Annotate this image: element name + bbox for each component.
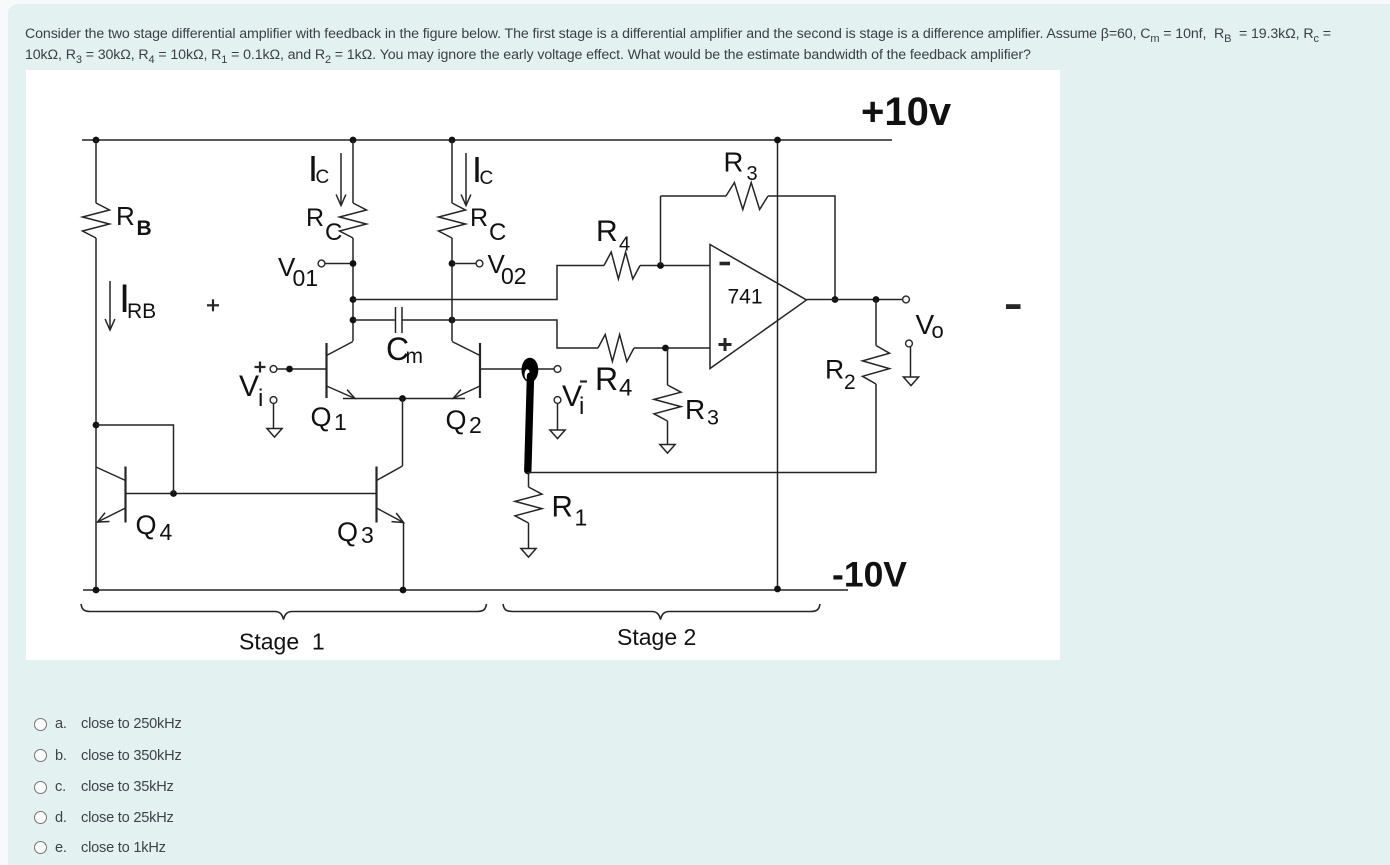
svg-text:R: R [116, 201, 135, 231]
wire RC1 branch top [352, 140, 354, 203]
svg-text:C: C [480, 168, 494, 189]
wire common emitters [355, 398, 453, 400]
wire R1 bottom [528, 523, 530, 548]
svg-text:1: 1 [575, 505, 588, 531]
wire op-amp supply (vertical) [777, 140, 779, 589]
svg-text:2: 2 [844, 371, 856, 394]
wire Q2 base to Vi- [480, 368, 554, 370]
svg-text:4: 4 [160, 519, 173, 545]
wire emitters to Q3 collector [402, 399, 404, 467]
svg-text:2: 2 [469, 412, 482, 438]
wire R2 bottom to feedback [528, 384, 877, 473]
node: Q1 collector to stage2 [350, 296, 357, 303]
wire R1 top [528, 473, 530, 488]
wire Vo ref to ground [910, 347, 912, 377]
wire R3b riser [667, 348, 669, 385]
svg-text:4: 4 [619, 375, 632, 402]
node: R4b / R3b junction [662, 345, 669, 352]
wire current mirror bases [126, 493, 377, 495]
Q1 emitter lead [327, 386, 356, 399]
svg-text:m: m [406, 345, 424, 368]
wire op-amp output [807, 299, 903, 301]
node rail tap [93, 422, 100, 429]
svg-text:C: C [489, 219, 506, 246]
wire R3 feedback right [768, 196, 835, 300]
op-amp U1 (741) [710, 245, 807, 369]
terminal V01 [318, 260, 325, 267]
capacitor Cm [395, 307, 397, 333]
svg-text:R: R [595, 361, 618, 397]
terminal Vo reference [906, 340, 913, 347]
wire to Cm left plate [353, 319, 396, 321]
node output R2 tap [873, 296, 880, 303]
wire RC2 branch top [451, 140, 453, 203]
svg-text:R: R [306, 204, 324, 232]
node V02 [449, 260, 456, 267]
wire R4b to op-amp plus input [634, 347, 710, 349]
Q4 collector lead [96, 467, 126, 481]
wire V02 to R4b [452, 320, 598, 348]
svg-text:1: 1 [334, 409, 347, 435]
hand-drawn pen mark [522, 358, 539, 383]
node: rail to RC1 [350, 137, 357, 144]
svg-text:i: i [258, 385, 263, 412]
svg-text:V: V [239, 370, 259, 403]
wire rail to mirror bases [96, 425, 174, 494]
terminal V02 [476, 260, 483, 267]
resistor R4 (upper) [604, 252, 640, 279]
ground (Vi-) [550, 430, 565, 439]
svg-text:Q: Q [446, 405, 467, 435]
ground (Vo) [903, 377, 918, 386]
Q3 collector lead [377, 466, 403, 481]
plus sign Vi+ [255, 366, 266, 368]
resistor R3 (feedback) [726, 183, 768, 210]
wire V01 stub [325, 263, 353, 265]
transistor Q3 base bar [375, 467, 377, 523]
node V01 [350, 260, 357, 267]
wire Vi- ref to ground [557, 404, 559, 431]
transistor Q1 base bar [325, 343, 327, 398]
wire Q3 emitter to rail [403, 523, 405, 591]
ground (R1) [521, 549, 536, 558]
wire Vi+ ref to ground [273, 404, 275, 429]
wire R2 riser [875, 300, 877, 346]
wire Cm right plate to Q2 collector [402, 319, 452, 321]
svg-text:R: R [552, 491, 573, 524]
resistor RC (left) [340, 203, 367, 238]
wire V02 stub [452, 263, 476, 265]
ground (Vi+) [267, 429, 282, 438]
node: rail to RC2 [449, 137, 456, 144]
op-amp minus pin marker [720, 262, 731, 266]
svg-text:C: C [316, 167, 330, 188]
svg-text:4: 4 [619, 234, 630, 256]
svg-text:Stage 1: Stage 1 [239, 629, 325, 655]
IRB current arrow [109, 281, 111, 328]
resistor R3 (plus input) [654, 385, 681, 421]
svg-text:RB: RB [127, 300, 156, 323]
transistor Q2 base bar [479, 343, 481, 398]
resistor RC (right) [439, 203, 466, 238]
svg-text:01: 01 [293, 265, 319, 291]
node: R4a / R3 feedback junction [657, 262, 664, 269]
terminal Vi- [554, 366, 561, 373]
svg-text:3: 3 [361, 522, 374, 548]
node: rail to RB junction [93, 137, 100, 144]
svg-text:02: 02 [501, 263, 527, 289]
transistor Q4 base bar [124, 467, 126, 523]
node rail Q4 [93, 587, 100, 594]
resistor R4 (lower) [598, 335, 634, 362]
wire Q2 collector [451, 238, 453, 341]
minus sign (output polarity) [1006, 304, 1021, 309]
svg-text:i: i [579, 393, 584, 420]
stage 2 brace [503, 604, 820, 620]
svg-text:-10V: -10V [832, 555, 907, 595]
svg-text:o: o [932, 318, 944, 343]
ground (R3b) [660, 445, 675, 454]
wire R3 feedback riser [660, 196, 662, 266]
node supply top [774, 137, 781, 144]
svg-text:741: 741 [728, 286, 763, 309]
svg-text:Stage 2: Stage 2 [617, 624, 696, 650]
svg-text:R: R [596, 215, 618, 248]
svg-text:B: B [137, 217, 152, 240]
op-amp plus pin marker [719, 343, 732, 346]
resistor R2 [863, 346, 890, 385]
wire V01 to R4a [353, 266, 604, 300]
resistor RB [83, 203, 110, 238]
Q2 collector lead [452, 342, 480, 356]
svg-text:C: C [325, 219, 342, 246]
Q2 emitter lead [453, 386, 480, 399]
wire R3 feedback left [661, 195, 727, 197]
IC current arrow (left) [340, 153, 342, 204]
stage 1 brace [81, 604, 487, 620]
node common emitter [399, 395, 406, 402]
wire Vi+ to Q1 base [277, 368, 327, 370]
Q1 collector lead [327, 342, 354, 356]
svg-text:3: 3 [707, 406, 719, 430]
-10V power rail [83, 589, 848, 591]
svg-text:+10v: +10v [861, 90, 952, 134]
node: Q2 collector to stage2 [449, 317, 456, 324]
svg-text:R: R [825, 355, 844, 385]
wire R3b bottom [667, 421, 669, 444]
+10v power rail [82, 139, 892, 141]
wire Q1 collector [352, 238, 354, 341]
node supply bottom [774, 586, 781, 593]
svg-text:R: R [724, 147, 744, 178]
svg-text:R: R [470, 204, 488, 232]
svg-text:Q: Q [311, 402, 332, 432]
terminal Vi+ [270, 366, 277, 373]
node on Vi+ wire [286, 366, 293, 373]
node: Q1 collector to Cm [350, 317, 357, 324]
terminal Vi+ reference [270, 397, 277, 404]
terminal Vo [903, 296, 910, 303]
Q3 emitter lead [377, 508, 404, 523]
terminal Vi- reference [554, 397, 561, 404]
wire R4a to op-amp minus input [640, 265, 710, 267]
svg-text:R: R [685, 394, 705, 425]
wire RB branch top [95, 140, 97, 203]
wire left rail below RB [95, 238, 97, 590]
svg-text:3: 3 [747, 163, 758, 185]
node mirror base junction [170, 490, 177, 497]
Q4 emitter lead [98, 508, 126, 522]
resistor R1 [515, 487, 542, 523]
svg-text:Q: Q [337, 517, 358, 547]
node R3 to output [832, 296, 839, 303]
svg-text:Q: Q [136, 510, 157, 540]
plus sign (input polarity) [207, 304, 219, 306]
node rail Q3 [400, 587, 407, 594]
IC current arrow (right) [465, 153, 467, 204]
